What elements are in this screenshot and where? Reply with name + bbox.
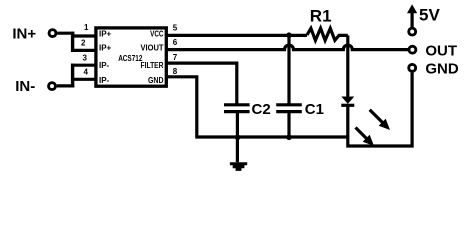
wire ground rail bbox=[195, 135, 347, 138]
wire IN- split vertical bbox=[71, 64, 74, 88]
wire LED bottom bbox=[348, 73, 412, 146]
terminal OUT bbox=[409, 46, 416, 53]
svg-text:GND: GND bbox=[148, 76, 164, 85]
svg-text:5: 5 bbox=[173, 24, 178, 33]
svg-text:2: 2 bbox=[81, 38, 86, 47]
svg-text:5V: 5V bbox=[419, 6, 440, 25]
terminal IN- bbox=[49, 83, 56, 90]
svg-text:VIOUT: VIOUT bbox=[141, 43, 164, 52]
LED D1 cathode bar bbox=[341, 104, 354, 107]
svg-text:4: 4 bbox=[84, 68, 89, 77]
terminal 5V bbox=[409, 28, 416, 35]
wire stub pin1 bbox=[71, 34, 96, 37]
svg-text:IN+: IN+ bbox=[12, 25, 36, 42]
junction dot VCC/C1 bbox=[286, 32, 292, 38]
svg-text:IP+: IP+ bbox=[99, 30, 112, 39]
wire FILTER pin7 bbox=[166, 63, 237, 104]
svg-text:IN-: IN- bbox=[15, 78, 35, 95]
power arrow 5V bbox=[411, 12, 414, 28]
wire VCC pin5 bbox=[166, 34, 307, 37]
wire IN+ split vertical bbox=[71, 32, 74, 52]
junction dot C2/rail bbox=[235, 135, 241, 141]
LED D1 diode triangle bbox=[341, 97, 354, 104]
svg-text:R1: R1 bbox=[310, 6, 332, 25]
wire GND pin8 bbox=[166, 77, 197, 137]
wire C1 top branch bbox=[287, 35, 290, 104]
svg-text:1: 1 bbox=[84, 23, 89, 32]
svg-text:3: 3 bbox=[83, 54, 88, 63]
svg-text:C1: C1 bbox=[305, 101, 324, 118]
LED arrow 1 bbox=[370, 110, 383, 123]
svg-text:OUT: OUT bbox=[425, 43, 457, 60]
svg-text:ACS712: ACS712 bbox=[118, 54, 143, 63]
svg-text:C2: C2 bbox=[252, 101, 271, 118]
resistor R1 bbox=[307, 28, 348, 40]
svg-text:VCC: VCC bbox=[150, 30, 164, 39]
wire IN+ to pin1 bbox=[57, 32, 74, 35]
wire stub pin2 bbox=[71, 49, 96, 52]
svg-text:IP-: IP- bbox=[99, 76, 110, 85]
svg-text:7: 7 bbox=[173, 53, 178, 62]
wire VIOUT pin6 with hops bbox=[166, 45, 408, 50]
wire C2 to ground bbox=[236, 112, 239, 163]
svg-text:IP-: IP- bbox=[99, 61, 110, 70]
wire IN- horizontal bbox=[57, 84, 75, 87]
wire stub pin3 bbox=[71, 64, 96, 67]
terminal GND bbox=[409, 64, 416, 71]
capacitor C2 bbox=[224, 105, 250, 112]
wire R1 to LED bbox=[346, 35, 349, 96]
svg-text:IP+: IP+ bbox=[99, 43, 112, 52]
terminal IN+ bbox=[49, 30, 56, 37]
svg-text:8: 8 bbox=[173, 67, 178, 76]
svg-text:FILTER: FILTER bbox=[141, 61, 164, 70]
LED arrow 2 bbox=[356, 128, 368, 140]
svg-text:6: 6 bbox=[173, 38, 178, 47]
wire C1 bottom bbox=[287, 112, 290, 137]
wire stub pin4 bbox=[71, 78, 96, 81]
IC U1 ACS712 body bbox=[96, 28, 166, 86]
svg-text:GND: GND bbox=[425, 61, 459, 78]
capacitor C1 bbox=[276, 105, 302, 112]
junction dot C1/rail bbox=[286, 135, 292, 141]
ground symbol bbox=[230, 164, 247, 170]
